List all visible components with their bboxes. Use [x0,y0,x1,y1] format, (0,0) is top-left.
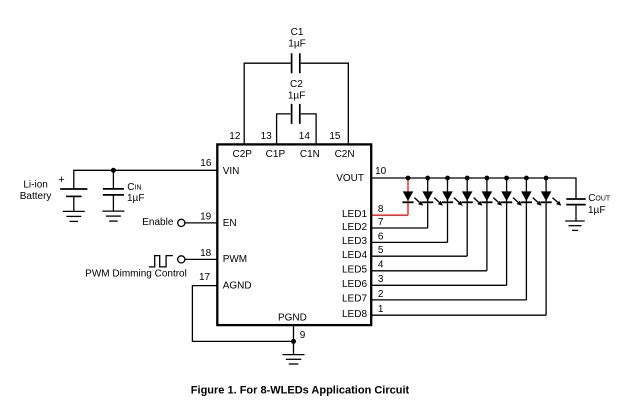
svg-text:Battery: Battery [20,191,52,202]
svg-text:9: 9 [300,330,306,341]
svg-text:LED8: LED8 [342,309,367,320]
svg-text:LED5: LED5 [342,265,367,276]
svg-text:1: 1 [378,304,384,315]
svg-text:VIN: VIN [223,166,240,177]
svg-text:LED4: LED4 [342,250,367,261]
svg-text:1µF: 1µF [127,193,144,204]
svg-text:Enable: Enable [142,217,174,228]
svg-text:C1: C1 [291,27,304,38]
svg-text:13: 13 [261,131,273,142]
svg-text:2: 2 [378,289,384,300]
svg-text:C2: C2 [290,79,303,90]
svg-text:LED2: LED2 [342,222,367,233]
svg-text:AGND: AGND [223,281,252,292]
svg-text:17: 17 [199,272,211,283]
svg-text:LED1: LED1 [342,209,367,220]
svg-text:C2N: C2N [335,149,355,160]
svg-text:15: 15 [329,131,341,142]
svg-text:LED6: LED6 [342,279,367,290]
svg-text:10: 10 [375,166,387,177]
svg-text:16: 16 [200,158,212,169]
svg-text:C1N: C1N [300,149,320,160]
svg-text:5: 5 [378,245,384,256]
svg-text:Figure 1. For 8-WLEDs Applicat: Figure 1. For 8-WLEDs Application Circui… [191,385,410,397]
svg-text:1µF: 1µF [288,39,305,50]
svg-text:Li-ion: Li-ion [23,179,47,190]
svg-text:PWM: PWM [223,254,247,265]
svg-text:EN: EN [223,218,237,229]
svg-text:PWM Dimming Control: PWM Dimming Control [85,269,187,280]
svg-text:8: 8 [378,204,384,215]
svg-text:14: 14 [299,131,311,142]
svg-text:7: 7 [378,217,384,228]
svg-text:1µF: 1µF [588,205,605,216]
svg-text:18: 18 [200,248,212,259]
svg-text:C2P: C2P [232,149,252,160]
svg-text:3: 3 [378,274,384,285]
svg-text:VOUT: VOUT [336,173,364,184]
svg-text:4: 4 [378,260,384,271]
svg-text:PGND: PGND [278,312,307,323]
svg-text:6: 6 [378,231,384,242]
svg-text:LED7: LED7 [342,294,367,305]
svg-text:1µF: 1µF [288,91,305,102]
svg-text:LED3: LED3 [342,236,367,247]
svg-text:19: 19 [200,211,212,222]
svg-text:12: 12 [229,131,241,142]
svg-text:C1P: C1P [266,149,286,160]
svg-text:+: + [58,174,64,186]
